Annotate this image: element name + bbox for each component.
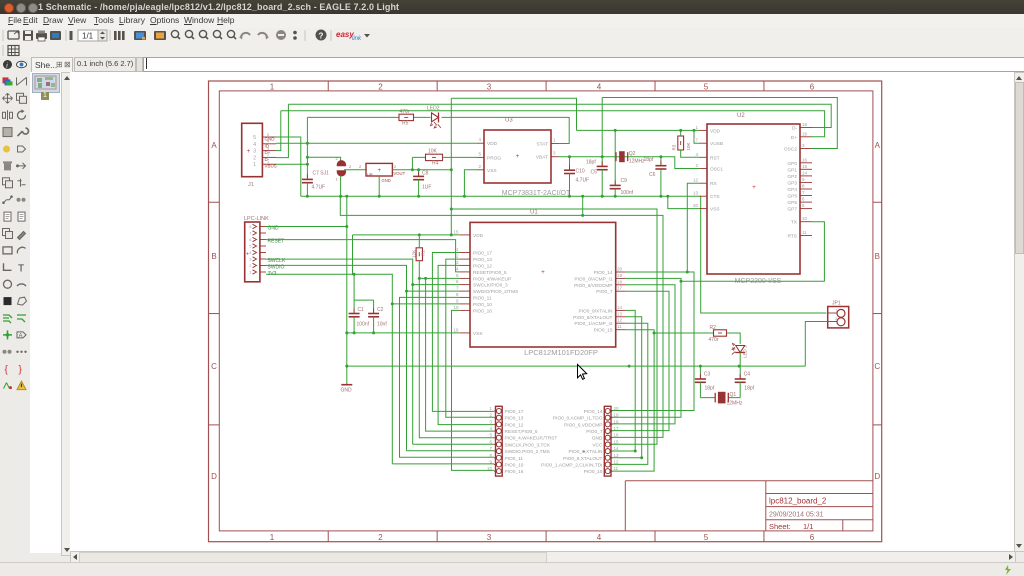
capacitor C7 [302, 178, 313, 197]
svg-text:PIO0_0,ACMP_I1,TDO: PIO0_0,ACMP_I1,TDO [553, 416, 603, 422]
svg-text:10nf: 10nf [377, 322, 387, 328]
svg-text:29/09/2014 05:31: 29/09/2014 05:31 [769, 512, 824, 519]
svg-text:4: 4 [249, 250, 252, 255]
wire crystal row [700, 397, 740, 399]
svg-text:VSS: VSS [710, 207, 720, 213]
svg-text:10: 10 [453, 305, 459, 310]
wire U2 VSS to ground rail [668, 196, 700, 208]
svg-text:GP4: GP4 [787, 187, 797, 193]
U2 left pins [693, 125, 723, 213]
svg-text:5: 5 [704, 533, 709, 542]
svg-text:18: 18 [802, 122, 808, 127]
svg-text:U1: U1 [530, 210, 538, 216]
wire R1 top to VDD line [418, 235, 420, 248]
svg-text:2: 2 [253, 155, 256, 161]
svg-text:PIO0_17: PIO0_17 [505, 409, 524, 415]
svg-text:VBUS: VBUS [265, 164, 277, 169]
svg-text:A: A [19, 333, 23, 339]
svg-text:SWDIO,PIO0_2,TMS: SWDIO,PIO0_2,TMS [505, 449, 550, 455]
svg-text:1/1: 1/1 [82, 32, 94, 41]
wire SWCLK net [266, 259, 494, 444]
svg-text:RESET,PIO0_5: RESET,PIO0_5 [505, 429, 538, 435]
svg-text:A: A [875, 141, 881, 150]
U3 pin stubs right [551, 138, 559, 157]
svg-text:GND: GND [592, 436, 603, 442]
svg-text:3: 3 [489, 419, 492, 424]
svg-text:PIO0_11: PIO0_11 [505, 456, 524, 462]
connector J1 [242, 123, 276, 176]
svg-text:PIO0_10: PIO0_10 [473, 302, 492, 308]
capacitor C1 [353, 300, 355, 313]
header left pin numbers [487, 406, 493, 471]
svg-text:2: 2 [695, 163, 698, 168]
mouse cursor [578, 365, 587, 380]
svg-text:+: + [247, 149, 251, 155]
svg-text:4: 4 [253, 142, 256, 148]
svg-text:18pf: 18pf [586, 160, 596, 166]
svg-text:PIO0_6,VDDCMP: PIO0_6,VDDCMP [564, 422, 602, 428]
wire U1 PIO0_6 row [612, 285, 676, 424]
svg-text:10K: 10K [428, 149, 438, 155]
svg-text:8: 8 [456, 292, 459, 297]
svg-text:RST: RST [710, 155, 720, 161]
svg-text:16: 16 [614, 433, 620, 438]
svg-text:1: 1 [456, 247, 459, 252]
wire ground rail to GND branch stub [582, 196, 584, 215]
svg-text:LED 1: LED 1 [743, 345, 748, 358]
wire U1 PIO0_15 row [612, 330, 655, 471]
svg-text:PIO0_15: PIO0_15 [594, 328, 613, 334]
svg-text:14: 14 [617, 305, 623, 310]
svg-text:RX: RX [710, 181, 717, 187]
solder jumper SJ1 [336, 156, 346, 182]
svg-text:U2: U2 [737, 113, 745, 119]
svg-text:6: 6 [489, 439, 492, 444]
svg-text:B: B [875, 252, 880, 261]
U2 right pins [752, 122, 812, 240]
svg-text:18pf: 18pf [705, 386, 715, 392]
svg-text:D-: D- [792, 126, 797, 132]
svg-text:14: 14 [802, 170, 808, 175]
svg-text:7: 7 [802, 190, 805, 195]
svg-text:LPC-LINK: LPC-LINK [244, 216, 269, 222]
svg-text:+: + [246, 252, 249, 258]
svg-text:+: + [752, 185, 756, 191]
svg-text:B: B [211, 252, 216, 261]
svg-text:1: 1 [270, 533, 275, 542]
horizontal scrollbar [70, 551, 1016, 564]
wire R1 net down to header row5 [419, 278, 494, 437]
svg-text:18: 18 [617, 279, 623, 284]
U3 pin stubs left [477, 137, 484, 170]
wire J1 GND down to ground rail [276, 137, 301, 196]
svg-text:D-: D- [265, 157, 270, 162]
svg-text:3: 3 [253, 149, 256, 155]
svg-text:STAT: STAT [536, 142, 548, 148]
junction TX line [680, 280, 683, 283]
svg-text:2: 2 [378, 82, 383, 91]
junction VOUT line [411, 168, 453, 171]
svg-text:16: 16 [453, 327, 459, 332]
svg-text:3: 3 [456, 260, 459, 265]
svg-text:OSC1: OSC1 [710, 167, 723, 173]
junction XTALOUT row [640, 456, 643, 459]
wire J1 VBUS to VBUS vertical [276, 163, 307, 165]
LED LED2 [430, 112, 440, 128]
svg-text:VDD: VDD [473, 233, 484, 239]
J1 stub pin numbers [267, 133, 269, 164]
svg-text:15: 15 [802, 164, 808, 169]
wire VDD line to U1 pin15 [353, 234, 461, 236]
svg-text:12: 12 [614, 459, 620, 464]
sheet number badge [41, 92, 49, 100]
crystal Q1 [715, 392, 728, 403]
svg-text:18: 18 [614, 419, 620, 424]
svg-text:i: i [6, 62, 8, 70]
svg-text:11: 11 [802, 230, 807, 235]
sheet thumbnail [32, 73, 60, 93]
capacitor C8 [413, 170, 424, 196]
left tool palette [0, 57, 30, 561]
svg-text:PIO0_8,XTALOUT: PIO0_8,XTALOUT [563, 456, 602, 462]
svg-text:TX: TX [791, 220, 798, 226]
svg-text:5: 5 [456, 273, 459, 278]
resistor R3 [678, 136, 684, 150]
U3 pin names [487, 141, 548, 174]
svg-text:16: 16 [802, 157, 808, 162]
wire U1 pin5 row with reset branch [419, 277, 460, 279]
svg-text:10: 10 [487, 466, 493, 471]
svg-text:PIO0_11: PIO0_11 [473, 295, 492, 301]
IC U2 body [707, 124, 800, 274]
svg-text:C3: C3 [704, 372, 711, 378]
wire C1 C2 top link [354, 274, 374, 300]
wire J1 D- up to bus [276, 104, 288, 157]
wire U1 pin10 to header row10 [452, 310, 495, 470]
svg-text:PIO0_7: PIO0_7 [586, 429, 603, 435]
svg-text:R4: R4 [432, 161, 439, 167]
junction ground rail upper [306, 195, 669, 198]
junction VSS row [353, 331, 376, 334]
svg-text:4: 4 [695, 152, 698, 157]
wire R3 bottom to U2 RST [681, 150, 700, 157]
svg-text:4: 4 [597, 533, 602, 542]
svg-text:VR: VR [367, 173, 373, 178]
wire U3 VBAT crystal line [559, 157, 700, 169]
svg-text:ID: ID [265, 143, 270, 148]
header right pin numbers [614, 406, 620, 471]
frame column labels 1-6 top [270, 82, 815, 91]
wire SWCLK branch to U1 pin6 [413, 284, 460, 286]
svg-text:PIO0_13: PIO0_13 [473, 257, 492, 263]
svg-text:19: 19 [614, 413, 620, 418]
resistor R1 [416, 248, 422, 261]
svg-text:D: D [874, 472, 880, 481]
svg-text:2: 2 [394, 164, 397, 169]
svg-text:5: 5 [249, 244, 252, 249]
wire J1 ID / U3 VDD line [276, 142, 477, 144]
wire U1 PIO0_7 row [612, 291, 670, 430]
header right net labels [541, 409, 603, 475]
wire ground rail corner down to JP1 pin1 line [701, 196, 827, 313]
ground symbol GND [341, 366, 353, 393]
svg-text:D: D [211, 472, 217, 481]
wire RESET net [266, 240, 460, 272]
svg-text:4: 4 [489, 426, 492, 431]
junction PIO0_15 to R2 [653, 332, 656, 335]
svg-text:1: 1 [553, 138, 556, 143]
wire PIO0_15 to R2 [654, 332, 713, 334]
wire 3V3 up to VDD line [352, 235, 354, 274]
svg-text:VSS: VSS [487, 168, 497, 174]
svg-text:1UF: 1UF [422, 185, 431, 191]
wire U1 PIO0_1 row [612, 323, 648, 464]
crystal Q2 [616, 152, 628, 162]
wire SWDIO branch to U1 pin7 [407, 290, 461, 292]
wire VDD top bus [451, 98, 576, 130]
svg-text:R3: R3 [672, 144, 677, 150]
wire R4 to U3 PROG [443, 156, 478, 158]
svg-text:C6: C6 [649, 172, 656, 178]
wire VDD vertical from top bus [450, 98, 452, 235]
schematic frame inner border [219, 91, 873, 531]
tab row: sheets tab + coordinate box + command line [30, 57, 1024, 72]
junction pin5 row [418, 277, 427, 280]
svg-text:7: 7 [249, 231, 252, 236]
wire D- top bus [288, 104, 831, 127]
svg-text:10K: 10K [686, 142, 691, 150]
svg-text:17: 17 [614, 426, 620, 431]
junction lower rail [628, 365, 741, 368]
svg-text:12K: 12K [412, 250, 417, 258]
svg-text:A: A [211, 141, 217, 150]
svg-text:C: C [211, 362, 217, 371]
svg-text:11: 11 [617, 324, 622, 329]
svg-text:1: 1 [695, 125, 698, 130]
svg-text:1: 1 [249, 270, 252, 275]
svg-text:D+: D+ [791, 135, 797, 141]
connector LPC-LINK body [245, 222, 266, 282]
svg-text:20: 20 [617, 267, 623, 272]
U1 right pins [541, 267, 625, 334]
svg-text:10: 10 [802, 216, 808, 221]
svg-text:18pf: 18pf [644, 157, 654, 163]
title block sheet number [769, 522, 813, 531]
wire VBUS vertical with C7 tap [306, 117, 308, 164]
junction VDD branch [450, 208, 453, 211]
svg-text:LED2: LED2 [427, 106, 440, 112]
schematic canvas [70, 72, 1015, 551]
svg-text:PIO0_12: PIO0_12 [473, 263, 492, 269]
svg-text:6: 6 [249, 237, 252, 242]
junction XTALIN row [634, 450, 637, 453]
svg-text:13: 13 [614, 453, 620, 458]
junction ground vertical [345, 225, 348, 368]
svg-text:VDD: VDD [710, 128, 721, 134]
wire LED1 to lower rail [739, 353, 741, 367]
svg-text:}: } [19, 365, 23, 376]
svg-text:6: 6 [456, 279, 459, 284]
svg-text:PIO0_16: PIO0_16 [473, 308, 492, 314]
capacitor C2 [373, 300, 375, 313]
junction 3V3 line [352, 273, 393, 306]
svg-text:9: 9 [456, 298, 459, 303]
wire GND branch to GND row [340, 196, 663, 437]
svg-text:PIO0_4/WAKEUP: PIO0_4/WAKEUP [473, 276, 511, 282]
svg-text:PROG: PROG [487, 155, 501, 161]
svg-text:PIO0_15: PIO0_15 [584, 469, 603, 475]
main ground vertical [346, 196, 348, 366]
menu bar [0, 14, 1024, 28]
svg-text:J1: J1 [248, 182, 254, 188]
wire U1 pin2 to header row2 [446, 259, 494, 417]
svg-text:19: 19 [802, 131, 808, 136]
capacitor red pin leads [307, 161, 740, 379]
svg-text:JP1: JP1 [832, 301, 841, 307]
svg-text:470r: 470r [400, 109, 410, 115]
svg-text:18pf: 18pf [744, 386, 754, 392]
wire TX to PIO0_0 line [681, 222, 824, 282]
IC U1 body [470, 222, 616, 347]
svg-text:20: 20 [693, 203, 699, 208]
svg-text:PIO0_9,XTALIN: PIO0_9,XTALIN [568, 449, 603, 455]
wire VUSB tap from VDD rail [694, 130, 700, 143]
wire VSS row [347, 332, 460, 334]
svg-text:{: { [5, 365, 9, 376]
svg-text:Q2: Q2 [629, 151, 636, 157]
svg-text:PIO0_7: PIO0_7 [596, 289, 613, 295]
svg-text:LPC812M101FD20FP: LPC812M101FD20FP [524, 348, 598, 357]
capacitor C10 [569, 157, 571, 171]
wire OSC2 vertical to crystal line [601, 98, 603, 157]
svg-text:4.7UF: 4.7UF [576, 178, 590, 184]
svg-text:5: 5 [704, 82, 709, 91]
svg-text:R1: R1 [421, 250, 426, 256]
svg-text:13: 13 [693, 191, 699, 196]
svg-text:5: 5 [802, 203, 805, 208]
svg-text:17: 17 [617, 286, 623, 291]
pin header JP3 right column [604, 406, 612, 476]
wire reset branch down to header row4 [426, 278, 494, 431]
svg-text:+: + [377, 168, 381, 174]
resistor R4 [426, 154, 443, 160]
sheets panel with thumbnail [30, 72, 62, 553]
LED LED1 [732, 343, 746, 354]
svg-text:T: T [18, 263, 24, 274]
wire U1 XTALOUT row [612, 317, 642, 458]
svg-text:19: 19 [617, 273, 623, 278]
title block outline [625, 481, 873, 531]
svg-text:OSC2: OSC2 [784, 147, 797, 153]
svg-text:5: 5 [253, 135, 256, 141]
svg-text:PIO0_1/ACMP_I2: PIO0_1/ACMP_I2 [574, 321, 612, 327]
svg-text:PIO0_13: PIO0_13 [505, 416, 524, 422]
wire VBUS to SJ1 top [307, 157, 340, 161]
wire U1 pin9 to header row9 [392, 303, 460, 305]
svg-text:3: 3 [487, 82, 492, 91]
svg-text:470r: 470r [709, 337, 719, 343]
wire SWDIO net [266, 265, 494, 450]
svg-text:100nf: 100nf [357, 322, 370, 328]
svg-text:1: 1 [336, 177, 339, 182]
long ground rail lower [347, 365, 806, 367]
wire J1 D+ up to bus [276, 111, 281, 151]
wire LED2 cathode to U3 STAT [442, 117, 570, 143]
wire SJ1 to VR input [344, 169, 366, 171]
svg-text:8: 8 [249, 224, 252, 229]
svg-text:VCC: VCC [592, 442, 603, 448]
svg-text:4: 4 [456, 266, 459, 271]
svg-text:2: 2 [378, 533, 383, 542]
pin header JP2 left column [494, 406, 502, 476]
wire STAT to LED2 [307, 116, 399, 118]
svg-text:100nf: 100nf [621, 190, 634, 196]
svg-text:GP5: GP5 [787, 194, 797, 200]
svg-text:PIO0_9/XTALIN: PIO0_9/XTALIN [578, 308, 613, 314]
wire U1 PIO0_0 row [612, 278, 682, 417]
wire R3 top to VDD rail [680, 130, 682, 136]
sheets panel scrollbar [61, 72, 73, 556]
svg-text:6: 6 [810, 533, 815, 542]
svg-text:15: 15 [614, 439, 620, 444]
svg-text:12: 12 [693, 178, 699, 183]
svg-text:PIO0_4,WAKEUP,/TRST: PIO0_4,WAKEUP,/TRST [505, 436, 558, 442]
resistor R2 [714, 330, 727, 336]
frame row labels A-D right [874, 141, 880, 481]
wire R1 bottom to reset row [418, 261, 420, 279]
svg-text:2: 2 [249, 263, 252, 268]
IC U3 body [484, 130, 551, 183]
svg-text:4: 4 [597, 82, 602, 91]
svg-text:7: 7 [456, 286, 459, 291]
svg-text:CTS: CTS [710, 194, 720, 200]
svg-text:VDD: VDD [487, 141, 498, 147]
svg-text:14: 14 [614, 446, 620, 451]
wire VDD rail to U2 [577, 129, 700, 131]
main toolbar [0, 28, 1024, 43]
svg-text:2: 2 [349, 164, 352, 169]
svg-text:17: 17 [693, 138, 699, 143]
svg-text:3: 3 [487, 533, 492, 542]
resistor R5 [399, 114, 414, 120]
svg-text:12MHz: 12MHz [727, 401, 743, 407]
svg-text:3: 3 [553, 151, 556, 156]
svg-text:+: + [516, 154, 520, 160]
status bar [0, 562, 1024, 576]
wire 3V3 net [266, 274, 494, 464]
svg-text:C1: C1 [358, 307, 365, 313]
svg-text:PIO0_8/XTALOUT: PIO0_8/XTALOUT [573, 315, 612, 321]
svg-text:PIO0_10: PIO0_10 [505, 462, 524, 468]
connector JP1 [828, 307, 849, 328]
svg-text:C9: C9 [621, 178, 628, 184]
svg-text:Sheet:: Sheet: [769, 522, 791, 531]
capacitor C3 [699, 366, 701, 379]
U1 left pins [453, 229, 518, 337]
svg-text:RTS: RTS [787, 234, 797, 240]
svg-text:VBAT: VBAT [536, 155, 548, 161]
wire OSC2 top bus [602, 98, 837, 149]
svg-text:U3: U3 [505, 118, 513, 124]
svg-text:GND: GND [341, 388, 353, 394]
wire VR output [392, 169, 451, 171]
canvas right scrollbar [1014, 72, 1024, 552]
frame column labels 1-6 bottom [270, 533, 815, 542]
svg-text:PIO0_1,ACMP_2,CLKIN,TDI: PIO0_1,ACMP_2,CLKIN,TDI [541, 462, 602, 468]
svg-text:3: 3 [802, 143, 805, 148]
svg-text:+: + [583, 450, 586, 456]
svg-text:C5: C5 [591, 170, 598, 176]
